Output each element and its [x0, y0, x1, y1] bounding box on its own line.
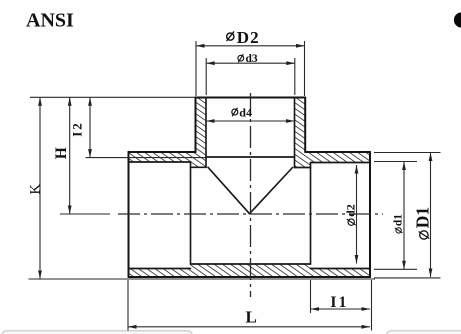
branch right outer wall line [304, 98, 306, 153]
branch socket step line [206, 156, 295, 158]
svg-text:L: L [246, 307, 257, 326]
horizontal centerline [118, 213, 383, 215]
top-left OD line [129, 151, 196, 153]
dim line D2 [196, 45, 305, 47]
label d3 [238, 53, 258, 65]
ext line d3 right [294, 58, 296, 95]
bottom bore line [191, 263, 311, 265]
label D1 [412, 207, 432, 239]
svg-text:d1: d1 [393, 214, 405, 226]
ext line OD top right [374, 152, 441, 154]
ext line L left [127, 280, 129, 331]
branch left inner wall [205, 98, 207, 168]
arrows d1 [402, 162, 406, 171]
right socket step vertical [310, 163, 312, 264]
dim line d4 [206, 120, 295, 122]
funnel left diagonal [208, 167, 250, 213]
dim line d2 [356, 165, 358, 264]
dim line K [39, 97, 41, 279]
svg-text:H: H [53, 147, 70, 159]
dim line I1 [311, 308, 371, 310]
I2 reference line [86, 157, 207, 159]
arrows L [128, 325, 137, 329]
vertical branch centerline [250, 93, 252, 297]
dim line d3 [206, 62, 295, 64]
ext line OD bottom right [374, 277, 441, 279]
left end face [128, 152, 130, 277]
dim line H [69, 97, 71, 214]
label d4 [232, 106, 252, 120]
dim line d1 [403, 162, 405, 270]
bottom-left reference line K [29, 278, 376, 280]
label D2 [227, 28, 260, 47]
hatch bottom run wall [129, 264, 371, 277]
svg-text:ANSI: ANSI [26, 10, 74, 32]
svg-text:D1: D1 [412, 207, 432, 228]
arrows d4 [206, 119, 215, 123]
dim line D1 [430, 153, 432, 278]
ext line right end bottom [371, 280, 373, 331]
ext line D2 right [304, 41, 306, 96]
top reference line K/H/I2 [30, 96, 195, 98]
svg-text:d4: d4 [239, 106, 252, 120]
H reference line [60, 213, 110, 215]
svg-text:d3: d3 [246, 53, 258, 65]
branch left outer wall line [195, 98, 197, 153]
dim line L [128, 326, 370, 328]
bottom OD line [129, 276, 371, 278]
svg-text:I2: I2 [70, 121, 85, 137]
svg-text:D2: D2 [237, 28, 260, 47]
arrows d2 [355, 165, 359, 174]
hatch branch left wall [191, 98, 207, 168]
bottom gray panel edge right segment [387, 331, 461, 334]
label d2 [344, 204, 358, 225]
branch right inner wall [294, 98, 296, 168]
right junction bore line [295, 167, 311, 169]
black dot at right edge [454, 12, 461, 27]
dim line I2 [89, 97, 91, 157]
hatch branch right wall [295, 98, 311, 168]
arrows I1 [311, 307, 320, 311]
label d1 [393, 214, 405, 233]
arrows D1 [429, 153, 433, 162]
top-left socket ID line [129, 161, 191, 163]
bottom-left socket ID line [129, 268, 191, 270]
svg-text:d2: d2 [344, 204, 358, 217]
right end face [369, 152, 371, 277]
ext line D2 left [195, 41, 197, 96]
arrows I2 [88, 97, 92, 106]
branch mouth line [196, 97, 306, 99]
arrows d3 [206, 61, 215, 65]
left socket step vertical [190, 162, 192, 264]
hatch top-right run wall [305, 152, 370, 163]
svg-text:K: K [27, 184, 43, 195]
funnel right diagonal [250, 168, 293, 214]
left junction bore line [191, 166, 207, 168]
top-right OD line [305, 151, 370, 153]
ext line socket ID top right [374, 161, 417, 163]
ext line d3 left [205, 58, 207, 95]
ext line socket ID bottom right [374, 268, 417, 270]
arrows D2 [196, 44, 205, 48]
top-right socket ID line [311, 162, 371, 164]
svg-text:I1: I1 [330, 294, 348, 311]
bottom gray panel edge left segment [2, 331, 192, 334]
ext line I1 left [310, 280, 312, 313]
hatch top-left run wall [129, 152, 196, 162]
arrows H [68, 97, 72, 106]
arrows K [38, 97, 42, 106]
bottom-right socket ID line [311, 268, 371, 270]
